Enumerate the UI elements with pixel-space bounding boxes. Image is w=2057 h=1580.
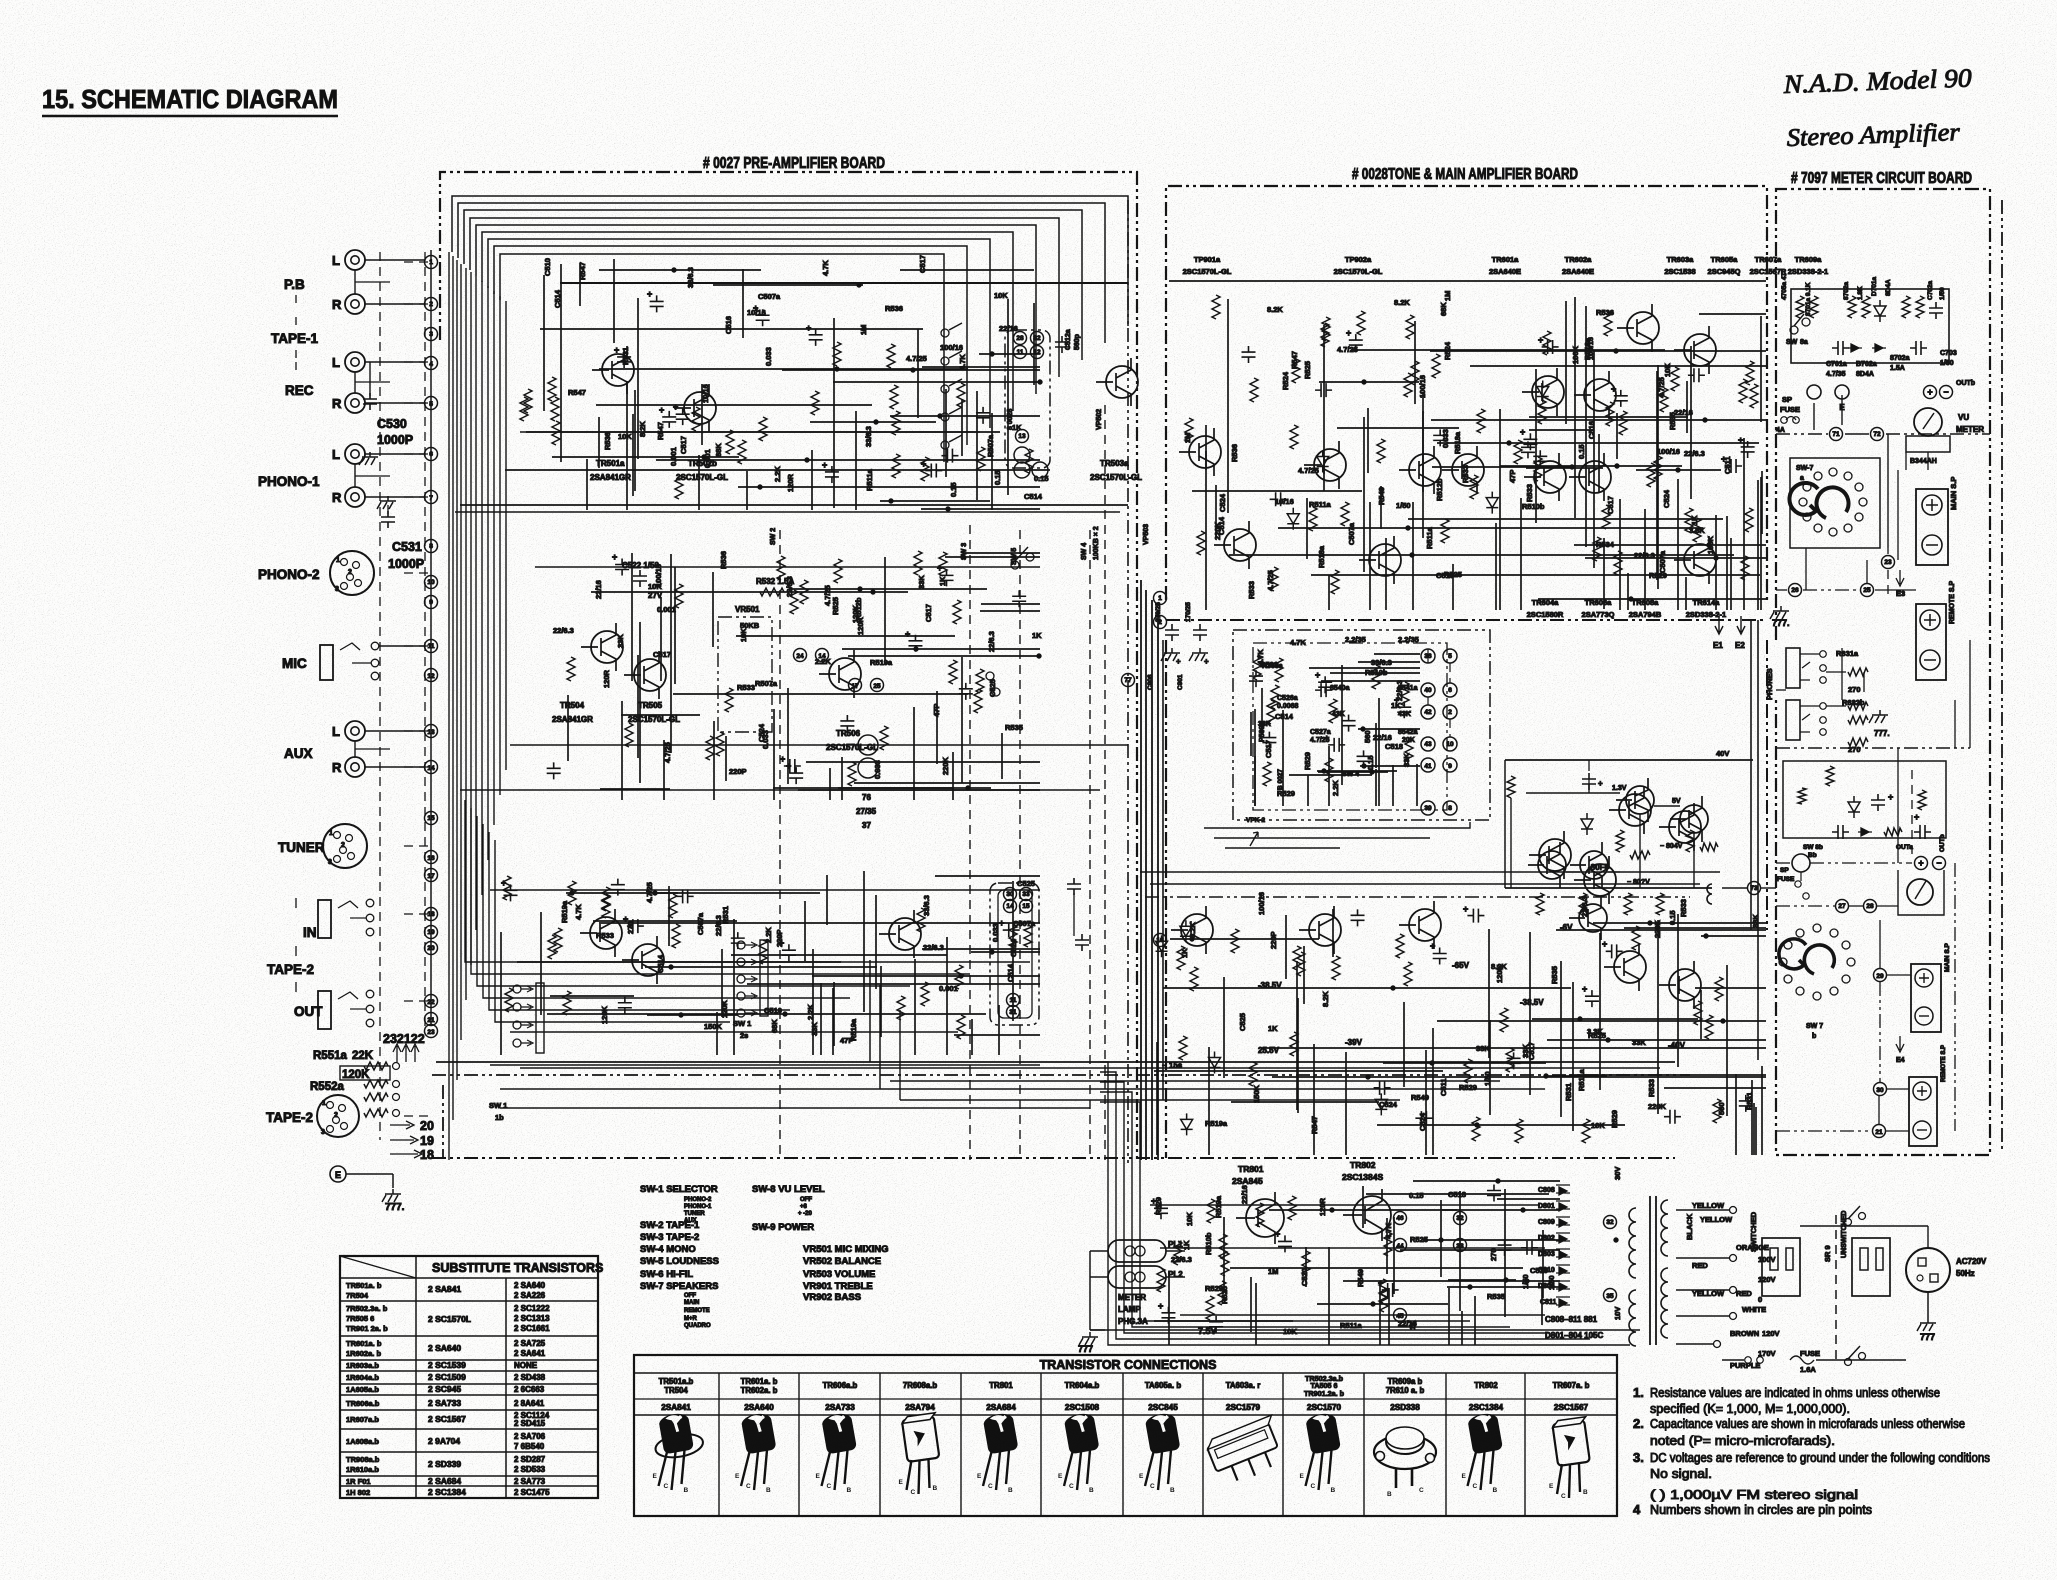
interboard dashdot [1127,200,1129,1163]
meter board right outer dashdot [2001,200,2003,1150]
connector REC jacks [345,352,365,372]
tone board inner divider [1166,619,1767,621]
junction circles interboard [1154,592,1167,605]
meter board border [1776,189,1990,1155]
bottom long dashdot bus 18 [432,1157,1675,1159]
transistor TR801 [1246,1199,1284,1237]
resistor R532 [760,588,784,596]
rotary switch SW7b [1847,958,1855,966]
substitute transistors table grid [340,1256,598,1498]
dashed connector boundary [379,252,381,1140]
phono-2 DIN connector [330,551,374,595]
arrows E1 E2 [1715,616,1745,634]
wire to outlets [1800,1225,1928,1227]
B0028 box [1005,330,1050,468]
diode bridge column [1614,1238,1618,1242]
vu meter 1 [1914,408,1942,436]
meter lower diode box [1783,761,1946,838]
tone ctrl inner dashbox [1253,643,1447,810]
mid dashdot bus [432,1074,1690,1076]
tone board right edge lower [1766,640,1768,930]
transformer primary [1629,1208,1636,1278]
transistor TR611 [1538,851,1566,879]
meter lower diodes [1826,766,1834,786]
meter sw contacts [1790,326,1798,334]
bus y1100 [900,1099,1400,1101]
connector P.B jacks [345,250,365,270]
dashed SW verticals [779,530,781,1160]
switch boxes bottom [990,883,1039,1025]
junctions 26 25 [1789,584,1802,597]
SW4 contacts [1011,561,1019,569]
bus y1089 [500,1088,1545,1090]
meter node circles [1807,385,1821,399]
transistor package drawings [650,1410,705,1461]
tone lower circuit [1154,786,1766,1155]
junction circle column [425,256,438,269]
cap C512a [1055,336,1069,353]
phones jack 2 [1786,700,1800,740]
meter junctions 71 72 [1830,428,1843,441]
bus y1062 [436,1061,1675,1063]
transistor TR609 [1626,786,1654,814]
tone board border lower left [1165,640,1167,1158]
preamp board border [440,172,1137,1163]
resistor 120K box [340,1066,390,1080]
meter lamp wires [1090,1250,1108,1252]
psu rails [1150,1204,1540,1206]
cap C531 1000P [377,496,396,509]
pin circles right [1014,332,1027,345]
secondary wires [1676,1209,1730,1211]
arrow up cluster [393,1044,419,1062]
connector PHONO-1 jacks [345,444,365,464]
main sp terminal [1916,489,1948,565]
tone left caps [1165,624,1179,641]
meter inner box [1791,289,1949,363]
junction 77 circle [1122,674,1135,687]
tone board border [1166,186,1767,600]
preamp stage1 circuit [520,255,1049,511]
bus left risers [869,960,871,1062]
cap C522 [633,570,647,587]
transformer core [1649,1196,1651,1345]
tone top rail [1169,280,1766,282]
psu junctions [1394,1212,1407,1225]
meter plusminus b [1915,857,1928,870]
meter diode row [1848,344,1862,352]
tuner DIN connector [323,824,367,868]
transistor TR503a [1106,366,1138,398]
tone control circuit [1249,649,1420,806]
preamp stage2 circuit [547,551,1042,800]
meter lower vwires [1897,748,1899,863]
cap C530 1000P [369,362,371,396]
inductor L601 [1707,884,1712,904]
VR501 dash box [718,617,772,732]
pin circles bottom [1004,888,1017,901]
remote sp terminal [1916,604,1946,680]
out jack [318,991,331,1029]
tone out rail top [1505,759,1753,761]
tape-2 DIN connector [317,1095,359,1137]
rotary switch SW7a [1790,458,1880,548]
ac plug [1906,1248,1950,1292]
psu circuit [1151,1179,1560,1345]
preamp stage3 circuit [501,871,1040,1055]
preamp stage2 rails [535,566,1040,568]
dashed connector stubs [404,261,428,263]
sr9 dashed [1835,1215,1837,1360]
junction 29 [1874,969,1887,982]
ground 777 meter [1770,606,1789,619]
tone power rails [1140,871,1720,873]
transistor TR613 [1579,904,1607,932]
phones jack 1 [1786,648,1800,688]
remote sp terminal 2 [1909,1077,1937,1146]
mic jack [320,645,333,680]
diode D605 [1581,813,1593,835]
tone ctrl lower bends [1204,822,1470,828]
psu nested bends [1100,1062,1630,1345]
out stage resistors [1507,776,1515,798]
E circle ground [330,1166,346,1182]
switched outlet [1762,1238,1800,1296]
tone top circuit [1179,291,1766,610]
connector AUX jacks [345,721,365,741]
tone right verticals [1750,620,1752,930]
switch cluster stage3 [513,985,521,993]
tone out rail bottom [1505,887,1712,889]
transistor connections grid [634,1355,1617,1516]
junction 21b [1873,1125,1886,1138]
arrow E4 [1896,1036,1904,1052]
transformer secondary [1661,1200,1668,1256]
tone ctrl pin circles [1421,649,1435,663]
arrows 20 19 18 [390,1121,422,1158]
out stage wires [1510,798,1512,888]
unswitched outlet [1852,1238,1890,1296]
bottom nested bus [465,800,1030,962]
vertical wire bus [448,252,450,1160]
meter top components [1796,296,1804,318]
meter mid wires [1841,395,1843,425]
switch cluster stage1 [941,329,949,337]
vu meter 2 [1907,879,1933,905]
transistor TR610 [1680,805,1708,833]
preamp nested top bus [452,196,1128,326]
meter lower dashdot [1776,747,1970,749]
transistor TR612 [1580,851,1608,879]
preamp stage1 rails [560,282,1128,284]
meter lamp [1108,1240,1166,1262]
junction circles mid [794,649,807,662]
main sp terminal 2 [1911,964,1941,1032]
meter node b [1792,854,1810,872]
meter junctions 27 28 [1836,900,1849,913]
resistor r552 zig [364,1109,388,1117]
junction column wire [430,250,432,1025]
preamp stage3 rails [490,889,1040,891]
meter plusminus a [1924,386,1937,399]
junction 30 [1874,1083,1887,1096]
tone ctrl outer dashbox [1233,630,1490,820]
interboard wires [1140,580,1142,1160]
junction 23 [1882,556,1895,569]
in jack [318,900,331,938]
transistor TR802 [1353,1196,1391,1234]
